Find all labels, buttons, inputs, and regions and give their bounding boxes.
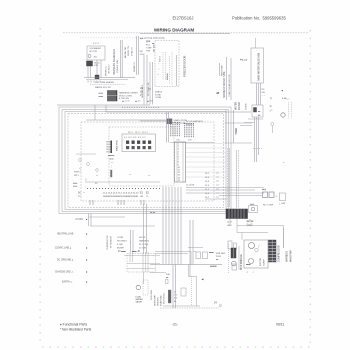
svg-text:▬·: ▬· [216, 259, 219, 261]
terminal strip dark block [226, 209, 248, 219]
dual valve lead down [143, 272, 145, 284]
svg-text:BK WH OR: BK WH OR [125, 47, 127, 58]
svg-text:HTR: HTR [94, 65, 99, 67]
dotted pin row under line [122, 107, 159, 108]
svg-text:WIRING DIAGRAM: WIRING DIAGRAM [154, 28, 194, 33]
snack zone wire with plug [140, 119, 203, 126]
relay cluster right [262, 188, 278, 207]
svg-text:OR RD 12: OR RD 12 [109, 64, 111, 74]
svg-text:▭·: ▭· [96, 175, 99, 177]
riser pair with hatch below board [130, 230, 134, 252]
svg-text:▬ 6 8: ▬ 6 8 [147, 101, 153, 103]
svg-text:TIMER: TIMER [236, 128, 238, 135]
svg-text:▬ 4 5: ▬ 4 5 [135, 101, 141, 103]
small motor circle [281, 113, 285, 117]
ice maker internal text [88, 47, 101, 59]
svg-text:HARNESS ICEMKR: HARNESS ICEMKR [119, 92, 138, 95]
valve feed riser above box [255, 38, 257, 48]
compressor dark label block [269, 240, 277, 262]
defrost text block [155, 295, 160, 306]
dotted risers right [289, 102, 292, 119]
svg-text:BK/WH: BK/WH [117, 248, 124, 250]
svg-text:⎌: ⎌ [276, 195, 278, 198]
svg-text:J3 ▬▬: J3 ▬▬ [118, 251, 126, 253]
board interior scatter marks [73, 167, 151, 188]
board-to-right wire runs [186, 188, 264, 200]
heater dark labels [209, 252, 226, 261]
bottom dotted bus [160, 307, 219, 309]
svg-text:RLY COMP: RLY COMP [263, 205, 274, 207]
svg-text:HOUSING: HOUSING [117, 241, 127, 243]
water valve triple leads [257, 83, 261, 105]
svg-text:J1-10: J1-10 [133, 193, 139, 195]
svg-text:HARNESS: HARNESS [286, 250, 289, 262]
water tube riser with label [220, 63, 224, 76]
svg-text:RY0█: RY0█ [107, 150, 113, 153]
harness ice maker vertical label [113, 49, 119, 75]
svg-text:FF CONN: FF CONN [139, 244, 149, 246]
svg-text:SW LT: SW LT [160, 55, 162, 62]
lead labels [262, 89, 266, 98]
svg-text:▬▬▬: ▬▬▬ [167, 73, 169, 80]
J7 pin rows [174, 292, 178, 303]
dotted jog y148 [253, 148, 262, 150]
svg-text:FF SENSOR: FF SENSOR [111, 236, 113, 248]
wires into board top [167, 112, 215, 143]
pin tick marks below clusters [90, 200, 144, 205]
svg-text:COMP: COMP [264, 259, 266, 266]
svg-text:5W: 5W [140, 51, 143, 53]
top-left horizontal wire runs [57, 105, 251, 120]
relay bank box [122, 134, 156, 152]
svg-text:CONN: CONN [117, 237, 124, 239]
svg-text:▤▤: ▤▤ [110, 158, 114, 161]
text cluster 240 [166, 274, 170, 279]
svg-text:10 CAV: 10 CAV [139, 247, 147, 250]
svg-text:WATER FILL 5W: WATER FILL 5W [95, 86, 111, 89]
snack zone text block [148, 88, 163, 99]
5W label [140, 51, 145, 56]
svg-text:VALVE: VALVE [136, 301, 143, 304]
pin label cluster 1 [78, 193, 85, 198]
svg-text:HARNESS ICEMAKER: HARNESS ICEMAKER [113, 49, 116, 75]
title underline rule [63, 32, 309, 34]
svg-text:EVAP FAN: EVAP FAN [160, 295, 163, 306]
svg-text:HARNESS WATER TUBE: HARNESS WATER TUBE [223, 71, 226, 98]
svg-text:CONN: CONN [155, 97, 162, 99]
board block lower marks [108, 155, 115, 169]
svg-text:GN/YL TN: GN/YL TN [128, 46, 130, 56]
svg-text:DOOR: DOOR [139, 237, 146, 239]
legend row 3 [55, 247, 88, 250]
harness water vertical label 2 [228, 58, 231, 100]
svg-text:▬ 1 2 3: ▬ 1 2 3 [122, 101, 130, 103]
dual valve coil circle [136, 285, 140, 289]
svg-text:L1 N: L1 N [227, 222, 232, 224]
svg-text:MAIN WATER VALVE ASM: MAIN WATER VALVE ASM [258, 53, 261, 81]
relay contacts [126, 141, 151, 150]
water filter vertical text pair [235, 102, 248, 110]
svg-text:DISP MODULE: DISP MODULE [241, 254, 243, 270]
svg-text:▭: ▭ [129, 174, 131, 176]
extra label column left [106, 64, 111, 76]
svg-text:MOTOR: MOTOR [90, 51, 98, 53]
legend row 5 [55, 271, 88, 274]
svg-text:WH/BK 12: WH/BK 12 [134, 61, 136, 72]
evap fan text column [160, 292, 166, 306]
dark bits at bus [95, 75, 99, 79]
svg-text:HTR DEF: HTR DEF [216, 253, 226, 255]
svg-text:NEUTRAL LINE: NEUTRAL LINE [57, 233, 74, 236]
legend row 6 [62, 281, 88, 284]
svg-text:+5 VDC: +5 VDC [75, 219, 83, 221]
svg-text:120VAC LINE ▴: 120VAC LINE ▴ [55, 247, 71, 250]
svg-text:⋮: ⋮ [110, 166, 113, 169]
right channel dashed pair [228, 148, 239, 208]
power board dashed sub-box [109, 127, 174, 186]
svg-text:TUBE CLEAR 5/16 OD: TUBE CLEAR 5/16 OD [228, 74, 231, 97]
below-board horizontal runs [89, 217, 155, 226]
svg-text:J2-10 BK: J2-10 BK [186, 185, 195, 187]
riser labels right [141, 82, 150, 98]
svg-text:FREEZER DOOR: FREEZER DOOR [183, 56, 187, 77]
svg-text:▾: ▾ [154, 295, 155, 298]
board dense dark text block [107, 140, 119, 153]
dashed box internal runs [124, 252, 160, 272]
risers right of ice maker [144, 55, 153, 105]
right riser bundle upper [255, 117, 259, 162]
jog wire to bottom connector [189, 265, 197, 307]
svg-text:≋: ≋ [79, 171, 81, 174]
pin text row above line [122, 101, 153, 103]
main control board shield box 3 [65, 112, 226, 210]
wire color labels left pair [125, 46, 134, 58]
bus tick marks [88, 81, 100, 83]
svg-text:DR SW: DR SW [154, 44, 156, 52]
footer functional parts note [60, 323, 92, 332]
svg-text:⊥: ⊥ [252, 271, 254, 274]
run capacitor symbol [279, 193, 286, 205]
fill tube heater text rows [90, 81, 125, 89]
ice maker box [87, 46, 105, 60]
freezer door dashed enclosure [155, 41, 179, 87]
board left relay symbols [74, 154, 98, 185]
svg-text:DC GROUND ▴: DC GROUND ▴ [57, 259, 73, 262]
board bottom pin header line [85, 181, 160, 183]
svg-text:MOTOR DC: MOTOR DC [164, 292, 166, 304]
svg-text:▬▬ J6: ▬▬ J6 [132, 251, 140, 253]
svg-text:GND: GND [227, 225, 232, 227]
main control board shield box 2 [62, 110, 229, 212]
svg-text:* Non-Illustrated Parts: * Non-Illustrated Parts [60, 328, 92, 332]
plug label text [99, 92, 139, 101]
svg-text:MAIN PCB: MAIN PCB [116, 140, 119, 151]
svg-text:▬▬▬: ▬▬▬ [210, 266, 217, 268]
ice maker wires down [88, 60, 101, 78]
mid-right wire loops [230, 219, 284, 249]
svg-text:±·: ±· [283, 162, 285, 164]
harness water vertical label 1 [223, 57, 227, 100]
connector pin grid B [184, 123, 194, 142]
freezer door left dark cluster [152, 43, 156, 52]
main control board shield box 4 [68, 114, 224, 208]
title solid underline segment [140, 33, 230, 35]
bottom horizontal runs [150, 252, 222, 273]
svg-text:SNACK: SNACK [155, 91, 163, 94]
svg-text:CHASSIS GND △: CHASSIS GND △ [55, 271, 73, 274]
svg-text:⌃⌃: ⌃⌃ [262, 95, 266, 98]
svg-text:4 3 2 1: 4 3 2 1 [93, 43, 100, 45]
svg-text:△: △ [85, 178, 87, 181]
center channel risers [163, 187, 181, 265]
heater boxes cluster [188, 248, 208, 265]
bottom crop-mark dotted border [42, 346, 309, 347]
connector pin grid A [170, 122, 180, 142]
svg-text:▬▬: ▬▬ [246, 264, 251, 266]
small box right [232, 264, 237, 270]
svg-text:ICE MAKER: ICE MAKER [90, 47, 102, 50]
svg-text:LT/BL VT: LT/BL VT [132, 46, 134, 56]
freezer door inner components [158, 52, 177, 86]
svg-text:⊥: ⊥ [246, 271, 248, 274]
left crop-mark dotted border [39, 28, 40, 341]
svg-text:♦ Functional Parts: ♦ Functional Parts [60, 323, 87, 327]
overload dark marks below [247, 219, 254, 227]
svg-text:ZONE: ZONE [155, 94, 161, 96]
ice maker bus line [84, 78, 135, 80]
arrow and 4.5A marks [282, 89, 291, 101]
bottom solid segment [163, 305, 200, 307]
compressor right line + text [284, 228, 289, 262]
main control board outer shield box [59, 107, 231, 214]
svg-text:▬·: ▬· [166, 277, 169, 279]
dispenser feed dashed box [127, 254, 156, 273]
valve dashed rect [143, 280, 148, 295]
svg-text:THERMISTOR: THERMISTOR [107, 235, 109, 250]
svg-text:HEATER: HEATER [157, 297, 160, 306]
svg-text:WH BK 14: WH BK 14 [106, 65, 108, 76]
fuse symbol mid [270, 98, 274, 133]
strip dotted leads right [186, 144, 228, 178]
svg-text:J3: J3 [140, 86, 143, 90]
ice maker mold heater block [87, 61, 101, 67]
risers cluster x140-147 [144, 204, 147, 254]
junction box with marks [252, 105, 263, 117]
svg-text:CONN: CONN [246, 103, 248, 110]
connector hatched block J1 [108, 91, 118, 102]
svg-text:J2: J2 [216, 91, 220, 95]
bottom connector J4 J2 labels [214, 302, 222, 308]
svg-text:⋮: ⋮ [130, 241, 132, 244]
svg-text:HTR: HTR [146, 51, 151, 53]
svg-text:▶▶ ACTIVE PCB NOTE: ▶▶ ACTIVE PCB NOTE [140, 37, 165, 40]
small box under [166, 280, 169, 284]
svg-text:MAIN PWR: MAIN PWR [290, 250, 293, 262]
J2 connector strip [175, 142, 186, 182]
dispenser col line [239, 246, 243, 270]
svg-text:▤⊕: ▤⊕ [146, 40, 150, 43]
svg-text:-21-: -21- [172, 323, 178, 327]
svg-text:TUBE: TUBE [146, 48, 152, 50]
svg-text:▬▬▬: ▬▬▬ [108, 155, 115, 157]
wire y123 to right section [225, 110, 252, 143]
svg-text:◀: ◀ [202, 278, 204, 281]
svg-text:▬▒▬: ▬▒▬ [247, 219, 254, 223]
svg-text:⎓⎓: ⎓⎓ [110, 163, 114, 165]
small rect right [181, 288, 186, 296]
svg-text:EARTH △: EARTH △ [62, 281, 72, 284]
svg-text:MOLD CONN: MOLD CONN [119, 95, 132, 97]
text block mid below board [117, 237, 127, 250]
svg-text:09/11: 09/11 [276, 323, 284, 327]
svg-text:K1 K2 K3 K4 K5: K1 K2 K3 K4 K5 [124, 137, 146, 139]
svg-text:DOOR HARNESS: DOOR HARNESS [186, 120, 203, 123]
svg-text:GN: GN [140, 196, 144, 198]
svg-text:EI27BS16J: EI27BS16J [173, 16, 194, 21]
dual valve label [136, 296, 144, 304]
short joints [95, 105, 106, 120]
right crop-mark dotted border [310, 30, 311, 343]
svg-text:CONN 8 CAV: CONN 8 CAV [116, 59, 119, 73]
small rects left of compressor [228, 241, 237, 249]
pin label cluster 2 [103, 193, 139, 198]
svg-text:MOTOR: MOTOR [260, 257, 262, 266]
svg-text:▒▬▒: ▒▬▒ [247, 223, 253, 227]
bottom risers into bus [173, 265, 176, 309]
J3 J6 dark top row [118, 251, 140, 253]
step wires left of junction [240, 119, 263, 126]
dispenser aux circle [232, 261, 237, 266]
pin label cluster 3 [140, 193, 150, 198]
ice maker connector wire pair [121, 40, 123, 78]
svg-text:≋: ≋ [79, 167, 81, 170]
svg-text:250V: 250V [216, 256, 221, 258]
wire pair mid [137, 36, 139, 75]
svg-text:△ CAP: △ CAP [279, 202, 286, 205]
top cluster marks [146, 40, 152, 53]
long risers to bottom connector [190, 220, 193, 277]
svg-text:▬▤: ▬▤ [262, 188, 266, 191]
board right J2 pin rows [205, 173, 219, 199]
compressor box [244, 240, 268, 268]
svg-text:FILTER: FILTER [239, 102, 241, 110]
terminal text rows below [227, 222, 232, 227]
svg-text:WHB: WHB [133, 196, 138, 198]
legend row 1 [75, 218, 88, 221]
main control board inner dashed box [81, 122, 214, 201]
svg-text:Publication No. 5995599635: Publication No. 5995599635 [232, 16, 286, 21]
J3 connector dark text [140, 86, 143, 97]
below-board left risers [89, 214, 92, 227]
text block right below board [139, 237, 150, 250]
svg-text:RLY 1 · RLY 2 · RLY 3: RLY 1 · RLY 2 · RLY 3 [128, 132, 149, 134]
thermistor column below board [107, 235, 113, 250]
svg-text:WATER: WATER [235, 102, 238, 110]
dark component bar [168, 290, 171, 303]
svg-text:SPLY: SPLY [74, 175, 80, 177]
overload protector box [249, 204, 258, 213]
dispenser dark block [231, 248, 236, 258]
svg-text:FILL TUBE HEATER: FILL TUBE HEATER [95, 81, 115, 84]
dotted riser right of heaters [228, 244, 230, 274]
faint dash under note [80, 37, 150, 39]
svg-text:▭·: ▭· [148, 175, 151, 177]
ground marks under compressor box [246, 271, 254, 274]
svg-text:HARNESS: HARNESS [139, 240, 150, 243]
svg-text:6 CAV: 6 CAV [117, 243, 123, 246]
svg-text:COMPRESSOR: COMPRESSOR [279, 245, 281, 262]
svg-text:▬·▬: ▬·▬ [150, 212, 156, 214]
legend row 4 [57, 259, 88, 262]
board bottom pin dots row [87, 188, 160, 189]
legend row 2 [57, 233, 88, 236]
main water valve box [251, 48, 264, 83]
svg-text:120V 60Hz: 120V 60Hz [151, 290, 153, 300]
